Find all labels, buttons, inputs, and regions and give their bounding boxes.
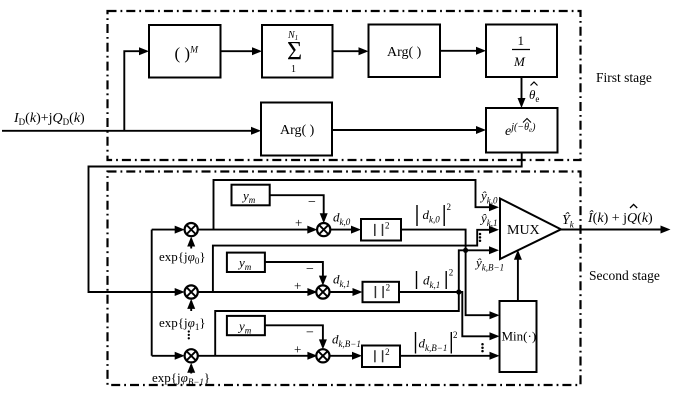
wire row2 dsq to Min in2 [399,292,497,336]
svg-text:2: 2 [386,283,391,293]
adder cross row1 [319,225,328,234]
wire bus vertical [151,230,153,356]
block Arg mid [261,103,332,156]
label sq row3 [375,350,383,362]
arrowhead into 1/M [476,47,486,55]
label abs d k0 sq [417,205,444,226]
wire 1/M down to e-box [521,77,523,106]
svg-text:2: 2 [385,221,390,231]
arrowhead into row3 sq box [352,352,362,360]
arrowhead into row1 sq box [351,226,361,234]
block Arg top [369,25,441,78]
block ym row2 [227,253,265,272]
multiplier cross row1 [187,225,196,234]
wire exp stub row3 [190,365,192,374]
svg-text:1: 1 [518,33,525,48]
wire bus to row1 multiplier [152,229,183,231]
svg-text:+: + [294,278,301,293]
svg-text:exp{jφ0}: exp{jφ0} [159,249,206,266]
wire row3 ym to adder [265,325,323,347]
arrowhead into e-box top [518,98,526,108]
wire exp stub row1 [190,239,192,249]
label abs d k1 sq [417,271,447,289]
block sq row2 [363,282,400,302]
arrowhead into ()^M [139,47,149,55]
block sq row1 [361,219,401,241]
arrowhead into Min in2 [490,332,500,340]
wire B2 to B3 [333,50,367,52]
wire row3 adder to sq box [330,355,359,357]
svg-text:+: + [294,342,301,357]
label vdots mux inputs [479,233,482,242]
multiplier cross row2 [187,288,196,297]
wire row3 yhat to MUX in3 [215,250,494,355]
block Min [500,301,537,372]
svg-text:Arg( ): Arg( ) [387,45,422,60]
wire row1 multiplier to adder [198,229,315,231]
multiplier circle row2 [185,285,198,298]
block MUX triangle [500,199,561,260]
arrowhead row3 exp up [187,363,195,373]
wire exp stub row2 [190,301,192,311]
wire Min select to MUX [517,252,519,301]
wire row1 dsq to Min in1 [401,230,497,316]
wire branch to ()^M [124,51,146,131]
arrowhead into Arg mid [251,127,261,135]
multiplier circle row3 [185,349,198,362]
svg-text:M: M [513,54,526,69]
label sq row2 [375,286,383,298]
wire e-box feedback to second stage [89,153,522,293]
svg-text:MUX: MUX [507,223,540,238]
block ()^M [149,25,221,78]
second stage dash-dot border [108,172,581,386]
arrowhead into e-box left [476,126,486,134]
wire B3 to B4 [440,50,484,52]
arrowhead row2 exp up [187,299,195,309]
arrowhead into row2 multiplier [175,288,185,296]
arrowhead select into MUX bottom [514,250,522,260]
wire row3 dsq to Min in3 [400,355,497,357]
svg-text:2: 2 [385,347,390,357]
wire row1 yhat to MUX in1 [214,180,495,230]
svg-text:Σ: Σ [287,37,302,66]
svg-text:Î(k) + jQ(k): Î(k) + jQ(k) [587,209,653,226]
arrowhead into row3 multiplier [175,352,185,360]
label vdots under exp row2 [188,330,190,339]
wire Arg to e-box [332,129,484,131]
wire bus to row3 multiplier [152,355,183,357]
svg-text:−: − [306,262,314,277]
block sq row3 [362,346,400,368]
svg-text:−: − [306,326,314,341]
arrowhead into row1 multiplier [175,226,185,234]
junction dot row3 yhat x row2 dsq [456,289,461,294]
arrowhead into Min in1 [490,311,500,319]
junction dot row3 yhat x row1 dsq vertical [463,248,468,253]
svg-text:1: 1 [291,64,296,75]
svg-text:exp{jφ1}: exp{jφ1} [159,315,206,332]
arrowhead into row3 adder left [307,352,317,360]
svg-text:First stage: First stage [596,70,652,85]
arrowhead into row1 adder top [320,213,328,223]
multiplier cross row3 [187,351,196,360]
arrowhead into sum [252,47,262,55]
arrowhead into MUX in1 [489,203,499,211]
wire MUX output [561,229,668,231]
wire row3 multiplier to adder [198,355,315,357]
multiplier circle row1 [185,223,198,236]
arrowhead row1 exp up [187,237,195,247]
wire input line [2,130,259,132]
arrowhead into MUX in2 [489,226,499,234]
arrowhead into row2 adder left [307,288,317,296]
block ym row3 [227,316,265,335]
block sum N1 [262,25,333,78]
adder circle row1 [317,223,330,236]
wire row2 ym to adder [265,262,323,283]
adder cross row2 [319,288,328,297]
svg-text:+: + [295,215,302,230]
first stage dash-dot border [108,11,581,160]
arrowhead into Arg top [359,47,369,55]
block e^(j(-theta)) [486,108,558,153]
arrowhead into Min in3 [490,352,500,360]
block 1/M [486,25,557,78]
label vdots min inputs [481,343,484,352]
svg-text:Min(·): Min(·) [502,329,537,344]
arrowhead into MUX in3 [489,246,499,254]
adder circle row3 [316,349,329,362]
arrowhead into row2 sq box [353,288,363,296]
wire row2 yhat to MUX in2 [213,230,495,292]
wire row2 multiplier to adder [198,291,315,293]
wire row2 adder to sq box [330,291,360,293]
adder cross row3 [319,351,328,360]
label sq row1 [375,224,383,236]
arrowhead into row3 adder top [319,339,327,349]
arrowhead into row1 adder left [307,226,317,234]
svg-text:−: − [308,195,316,210]
wire row1 ym to adder [270,195,324,221]
svg-text:Second stage: Second stage [589,268,660,283]
arrowhead output [661,226,671,234]
svg-text:2: 2 [453,330,458,340]
arrowhead into row2 adder top [319,276,327,286]
label abs d kB-1 sq [416,332,452,354]
svg-text:2: 2 [449,268,454,278]
svg-text:2: 2 [447,202,452,212]
svg-text:Arg( ): Arg( ) [280,123,315,138]
wire B1 to B2 [221,50,260,52]
wire row1 adder to sq box [330,229,358,231]
adder circle row2 [316,285,329,298]
block ym row1 [232,185,270,206]
